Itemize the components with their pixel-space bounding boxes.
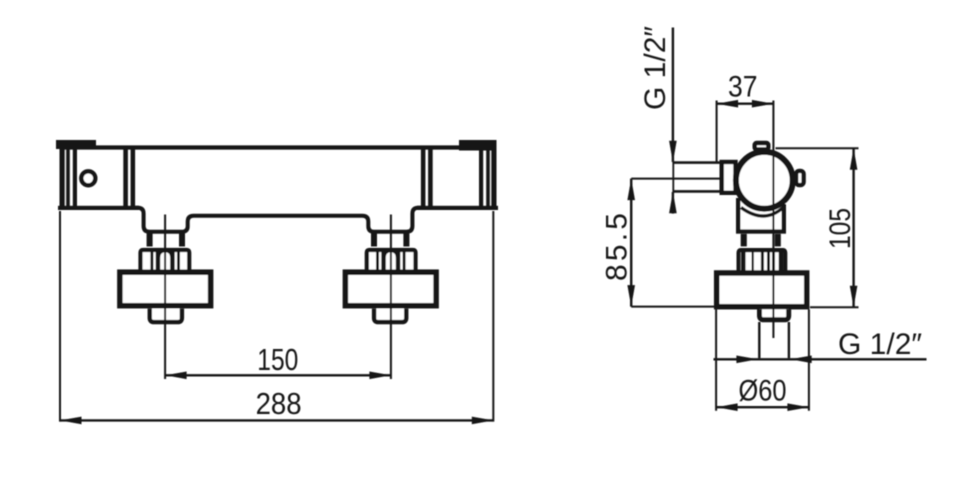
right valve centerline / extension [390, 215, 392, 380]
body shoulder arc [741, 208, 783, 217]
left end cap with lines [58, 140, 139, 210]
outlet stub [760, 309, 789, 320]
left valve assembly [120, 234, 211, 323]
37 left extension line [716, 101, 718, 162]
outlet pipe left edge [758, 322, 760, 358]
top-right mounting bracket [459, 140, 496, 151]
105 top extension line [776, 147, 859, 149]
top-left mounting bracket [56, 140, 96, 149]
vertical axis line [772, 101, 774, 339]
right valve assembly (mirrored) [345, 234, 436, 323]
G 1/2 top dimension line with outside arrows [672, 28, 674, 163]
svg-text:G 1/2″: G 1/2″ [838, 328, 922, 361]
body right tab [796, 171, 804, 185]
Ø60 right extension line [808, 310, 810, 411]
85.5 bottom extension line [631, 306, 716, 308]
dimension line 150 [165, 374, 391, 376]
svg-text:37: 37 [728, 71, 758, 104]
inlet nipple flange [722, 162, 736, 193]
left valve centerline / extension [164, 215, 166, 380]
inlet pipe top edge [673, 161, 722, 164]
105 bottom extension line [810, 306, 859, 308]
body circle [736, 152, 793, 209]
svg-text:85.5: 85.5 [601, 210, 634, 281]
svg-text:288: 288 [256, 386, 302, 421]
dimension line 37 [717, 102, 774, 104]
105 dimension line [852, 148, 854, 307]
stem below body [741, 234, 747, 247]
bar bottom profile with valve bosses [135, 208, 421, 232]
85.5 dimension line [630, 179, 632, 307]
svg-text:G 1/2″: G 1/2″ [639, 26, 672, 110]
dimension line 288 [60, 419, 493, 421]
svg-text:150: 150 [257, 342, 298, 377]
body right side edge [782, 204, 786, 232]
body top tab [755, 143, 769, 150]
288 left extension line [59, 211, 61, 422]
G 1/2 bottom dimension line [714, 358, 927, 360]
outlet pipe right edge [788, 322, 790, 358]
knurled ring [739, 250, 786, 273]
svg-text:Ø60: Ø60 [739, 375, 787, 408]
wall flange [717, 273, 807, 307]
bar top edge [61, 145, 493, 149]
Ø60 left extension line [715, 310, 717, 411]
inlet pipe open end [672, 161, 674, 192]
svg-text:105: 105 [824, 208, 857, 249]
body left side edge [736, 198, 740, 232]
288 right extension line [492, 211, 494, 422]
right end cap (mirrored) [417, 140, 498, 210]
screw hole in left cap [81, 171, 95, 185]
valve body lower block [736, 198, 786, 234]
horizontal centerline through inlet pipe [631, 178, 752, 180]
inlet pipe bottom edge [673, 190, 722, 193]
Ø60 dimension line [716, 406, 809, 408]
body bottom edge [736, 229, 786, 233]
